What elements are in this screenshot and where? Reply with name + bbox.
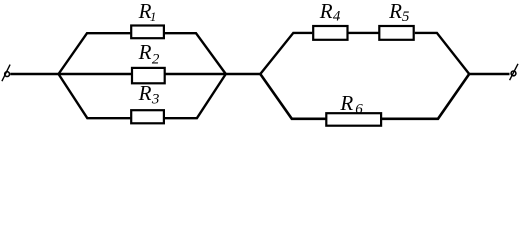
svg-text:R: R <box>138 81 152 105</box>
svg-text:6: 6 <box>355 101 363 117</box>
svg-text:R: R <box>339 91 353 115</box>
svg-text:4: 4 <box>333 9 341 25</box>
svg-text:R: R <box>138 40 152 64</box>
svg-text:R: R <box>388 0 402 23</box>
svg-text:3: 3 <box>151 92 160 108</box>
svg-text:2: 2 <box>152 52 160 68</box>
svg-text:5: 5 <box>402 9 410 25</box>
svg-text:1: 1 <box>150 9 157 24</box>
svg-text:R: R <box>319 0 333 23</box>
